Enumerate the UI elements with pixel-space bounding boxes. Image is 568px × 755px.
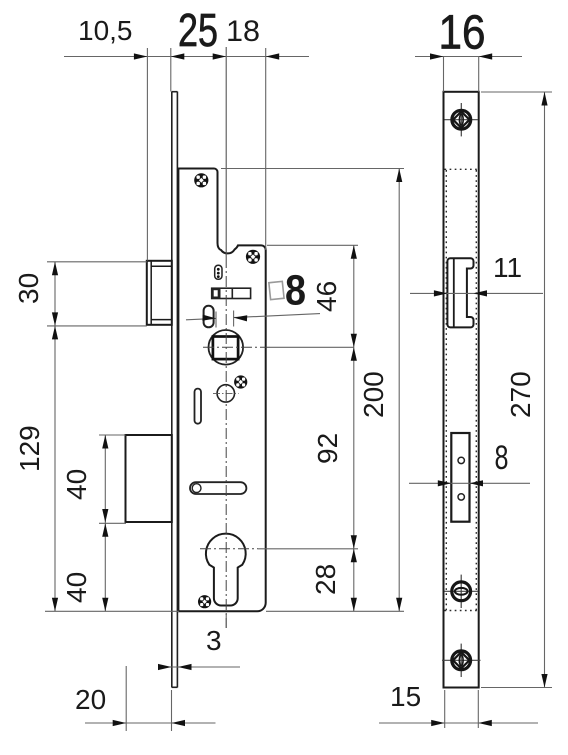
cross on small circle xyxy=(213,392,239,394)
screw below case step xyxy=(246,250,260,264)
svg-text:129: 129 xyxy=(14,425,45,472)
svg-text:3: 3 xyxy=(206,625,222,656)
bolt slot (front) xyxy=(451,433,469,522)
dim 11 line xyxy=(410,292,543,294)
euro profile cylinder hole xyxy=(206,534,246,606)
tilted light square marker xyxy=(269,281,284,299)
latch bolt (side view) xyxy=(147,261,172,325)
narrow vertical slot xyxy=(195,389,202,424)
top dimension line xyxy=(64,56,309,58)
screw bottom-left of case xyxy=(198,595,211,608)
svg-text:20: 20 xyxy=(75,684,106,715)
extension line at latch face xyxy=(146,48,148,261)
dim line 200 xyxy=(398,169,400,612)
spindle hub circle xyxy=(209,330,244,365)
horizontal adjuster slot xyxy=(212,288,251,298)
dim line 46/92/28 xyxy=(353,245,355,611)
small oval slot left of spindle xyxy=(204,306,214,328)
extension bolt bottom xyxy=(99,522,126,524)
svg-text:8: 8 xyxy=(495,439,509,477)
dim line 40/40 xyxy=(104,435,106,611)
svg-text:30: 30 xyxy=(13,273,44,304)
svg-text:40: 40 xyxy=(61,469,92,500)
extension spindle centre xyxy=(270,346,354,348)
dim 270 xyxy=(481,91,552,93)
extension latch bottom xyxy=(47,325,147,327)
extension case tab top xyxy=(221,168,404,170)
svg-text:200: 200 xyxy=(358,371,389,418)
svg-text:28: 28 xyxy=(310,564,341,595)
svg-text:92: 92 xyxy=(312,433,343,464)
extension line bolt face bottom xyxy=(125,666,127,731)
extension line plate bottom xyxy=(171,690,173,731)
dimension 8 extension ticks (8mm square hole) xyxy=(186,311,320,328)
screw top-left of case xyxy=(194,173,208,187)
svg-text:40: 40 xyxy=(61,572,92,603)
screw middle (front) xyxy=(444,575,478,608)
svg-text:46: 46 xyxy=(311,281,342,312)
dim line 20 xyxy=(85,722,216,724)
dim line 30/129 xyxy=(54,262,56,612)
lock case outline xyxy=(178,169,265,612)
slot hole lower xyxy=(458,494,464,500)
svg-text:18: 18 xyxy=(226,15,260,48)
dead bolt (side view) xyxy=(126,435,172,522)
svg-text:11: 11 xyxy=(493,252,522,283)
arrows top chain xyxy=(134,53,148,59)
extension cylinder centre xyxy=(258,548,358,550)
spindle square hole xyxy=(213,337,238,360)
dim 8 line (right view) xyxy=(409,482,530,484)
svg-text:10,5: 10,5 xyxy=(78,15,133,46)
horizontal slot above cylinder xyxy=(190,482,246,494)
svg-text:15: 15 xyxy=(390,681,421,712)
svg-text:16: 16 xyxy=(439,7,486,60)
dashed case contour lines xyxy=(445,169,478,610)
svg-text:270: 270 xyxy=(505,371,536,418)
extension line at case right xyxy=(265,48,267,250)
spindle horizontal centreline xyxy=(203,346,270,348)
extension case bottom right xyxy=(266,610,404,612)
faceplate front view xyxy=(444,92,479,688)
dim 15 bottom xyxy=(444,690,446,728)
screw top (front) xyxy=(445,103,479,136)
extension latch top xyxy=(47,261,147,263)
dim line 3 xyxy=(160,666,240,668)
centreline below case xyxy=(225,614,227,628)
extension case bottom left xyxy=(45,610,179,612)
slot hole upper xyxy=(458,457,464,463)
faceplate (edge view, 3mm strip) xyxy=(172,92,178,688)
latch opening (front) xyxy=(447,258,473,327)
dim 16 top xyxy=(415,56,522,58)
extension case shoulder xyxy=(267,244,358,246)
vertical centreline xyxy=(225,47,227,257)
svg-text:25: 25 xyxy=(178,4,218,56)
small circle below spindle xyxy=(217,385,234,402)
small slot with dots (above spindle) xyxy=(215,265,222,279)
cylinder horizontal centreline xyxy=(200,548,258,550)
extension bolt top xyxy=(99,434,126,436)
screw bottom (front) xyxy=(442,644,481,677)
screw right of centre xyxy=(234,375,247,388)
svg-text:8: 8 xyxy=(285,267,306,315)
extension line at plate face xyxy=(170,48,172,92)
